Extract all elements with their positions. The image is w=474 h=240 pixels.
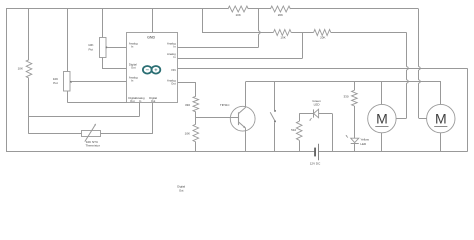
svg-text:Out: Out [131, 66, 136, 70]
op-amp U1 arduino board box [127, 33, 178, 103]
label Yellow LED [360, 138, 369, 147]
label 10K base chain [185, 131, 190, 135]
battery 12V DC [314, 144, 318, 160]
label 20K row1 [278, 13, 283, 17]
wire motor rail [246, 81, 441, 83]
arduino right pin labels [167, 41, 176, 85]
resistor 10K row2 [273, 30, 291, 36]
wire row1 right end down to right motor (hops) [419, 9, 427, 119]
wire 330 to yellow LED [354, 106, 356, 138]
svg-text:10K: 10K [280, 36, 285, 40]
label TIP31C [220, 103, 229, 107]
wire collector up to motor rail [245, 82, 247, 108]
wire motor-rail node down (none) green LED branch left [299, 114, 301, 122]
arduino left pin labels [129, 41, 138, 82]
svg-text:12V DC: 12V DC [310, 162, 321, 166]
wire node to arduino bottom Analog In [29, 103, 140, 117]
svg-text:Out: Out [151, 99, 156, 103]
potentiometer 10K Pot 1 [100, 38, 108, 58]
svg-text:Pot: Pot [89, 48, 94, 52]
wire yellow LED to ground bus [354, 144, 356, 152]
resistor 20K row2 [314, 30, 331, 36]
arduino infinity logo [143, 66, 160, 74]
label 10K left [18, 66, 23, 70]
wire row2 junction to Analog In pin 2 [178, 33, 303, 59]
wire top rail to resistor 10K left [28, 9, 30, 60]
wire row2 rail [202, 32, 407, 34]
wire motor rail to 330 LED resistor [354, 82, 356, 91]
wire pot1 wiper to arduino Analog In [107, 47, 127, 49]
svg-text:10K: 10K [18, 66, 23, 70]
transistor Q1 TIP31C [230, 106, 255, 131]
potentiometer 10K Pot 2 [64, 72, 73, 92]
wire top rail to pot2 [67, 9, 69, 72]
svg-text:20K: 20K [320, 36, 325, 40]
resistor 20K row1 [270, 6, 290, 12]
svg-text:VIN: VIN [171, 68, 176, 72]
LED D1 green [309, 109, 318, 121]
arduino bottom pin labels [128, 96, 157, 103]
svg-text:GND: GND [147, 36, 155, 40]
svg-text:510: 510 [291, 128, 296, 132]
wire GND to top rail [152, 9, 154, 33]
svg-text:10K: 10K [88, 43, 93, 47]
wire 10K left down to thermistor node [28, 78, 30, 134]
motor M2 right [427, 104, 455, 132]
label 330 LED [343, 94, 348, 98]
svg-text:M: M [376, 110, 388, 126]
svg-text:330: 330 [343, 94, 348, 98]
thermistor 10K NTC [82, 124, 101, 142]
switch SW1 [270, 82, 276, 152]
wire base junction to transistor [196, 117, 239, 119]
wire 510 to ground bus [299, 140, 301, 152]
svg-text:Pot: Pot [53, 81, 58, 85]
wire top rail (+5V bus) [6, 8, 419, 10]
svg-text:10K: 10K [236, 13, 241, 17]
label 510 [291, 128, 296, 132]
motor M1 left [368, 104, 396, 132]
wire pot1 bottom to arduino Digital Out [103, 57, 127, 69]
wire arduino Analog Out to 330 resistor [178, 82, 196, 96]
caption Digital Out [177, 184, 185, 192]
svg-text:Out: Out [171, 81, 176, 85]
wire row1 junction to Analog In pin (hop over row2) [178, 9, 260, 48]
svg-text:20K: 20K [278, 13, 283, 17]
svg-text:LED: LED [314, 103, 321, 107]
label Green LED [312, 99, 321, 107]
wire pot2 bottom to arduino corner [67, 91, 127, 103]
wire emitter down to ground bus [245, 128, 247, 151]
svg-text:TIP31C: TIP31C [220, 103, 229, 107]
wire thermistor to arduino bottom Digital Out [101, 103, 153, 134]
wire green LED right lead [319, 114, 333, 152]
wire node to thermistor [29, 133, 82, 135]
resistor 510 [296, 121, 302, 140]
label 20K row2 [320, 36, 325, 40]
label 10K Pot 2 [53, 77, 58, 85]
resistor 10K left [26, 60, 32, 78]
wire row2 drop from top rail [202, 9, 204, 33]
resistor 10K base chain [193, 124, 199, 142]
wire right rail down to ground bus [467, 68, 469, 151]
wire 330 to 10K junction [195, 112, 197, 124]
label 10K row2 [280, 36, 285, 40]
svg-text:10K: 10K [185, 131, 190, 135]
resistor 330 base chain [193, 96, 199, 112]
wire right motor bottom to ground bus [440, 133, 442, 152]
wire bottom ground bus (right of battery) [319, 151, 468, 153]
wire left motor top to motor rail [381, 82, 383, 105]
wire 10K chain to ground bus [195, 142, 197, 152]
wire motor rail down to right motor [440, 82, 442, 105]
label 330 base chain [185, 103, 190, 107]
label 10K row1 [236, 13, 241, 17]
wire green LED left lead [299, 113, 313, 115]
svg-text:LED: LED [360, 142, 367, 146]
LED D2 yellow [346, 135, 359, 144]
label thermistor [86, 140, 100, 148]
svg-text:M: M [435, 110, 447, 126]
wire VIN rail to right rail [178, 68, 468, 70]
wire pot2 wiper to arduino Analog In [71, 81, 127, 83]
wire row2 right end down to left motor (hops) [396, 33, 408, 119]
label 12V DC [310, 162, 321, 166]
label GND [147, 36, 155, 40]
wire top rail to pot1 [102, 9, 104, 37]
wire left rail [6, 9, 8, 152]
svg-text:Yellow: Yellow [360, 138, 369, 142]
resistor 330 LED [352, 90, 358, 106]
wire left motor bottom to ground bus [381, 133, 383, 152]
label 10K Pot 1 [88, 43, 93, 51]
wire bottom ground bus (left of battery) [6, 151, 314, 153]
svg-text:Out: Out [130, 99, 135, 103]
svg-text:Thermistor: Thermistor [86, 144, 100, 148]
resistor 10K row1 [228, 6, 248, 12]
svg-text:330: 330 [185, 103, 190, 107]
svg-text:Out: Out [179, 188, 184, 192]
